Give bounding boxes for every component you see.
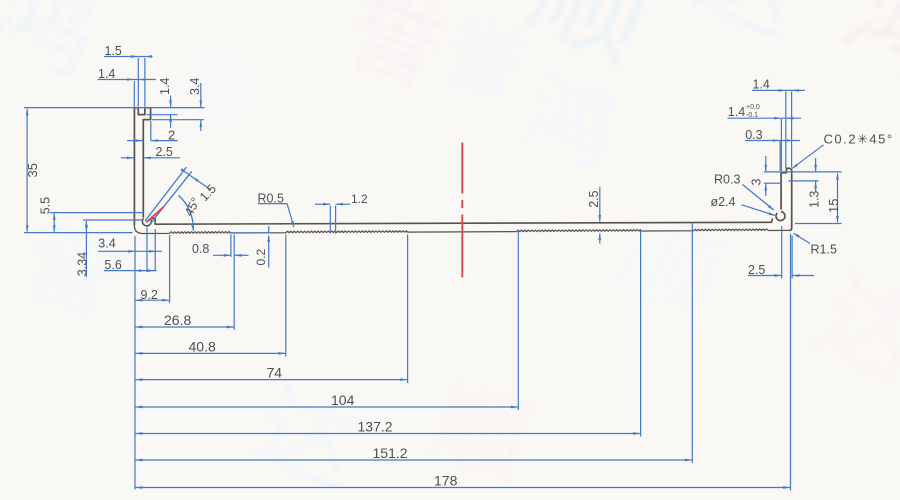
profile left corner screw boss circle [142, 218, 151, 226]
svg-text:178: 178 [434, 473, 458, 489]
dimension 40.8 [135, 352, 286, 354]
svg-text:R1.5: R1.5 [811, 242, 837, 256]
svg-text:40.8: 40.8 [189, 338, 216, 354]
profile bottom edge with serrated segments [134, 225, 789, 233]
profile left wall with top slot [134, 108, 150, 226]
dimension 2.5 bottom right [748, 275, 782, 277]
dimension 74 [135, 379, 408, 381]
dimension 2.5 wall thickness [121, 157, 134, 159]
svg-text:2.5: 2.5 [156, 145, 173, 159]
red rib highlight line [146, 207, 163, 222]
svg-text:0.2: 0.2 [254, 248, 268, 265]
dimension 5.5 [50, 212, 144, 214]
svg-text:达: 达 [680, 0, 815, 57]
profile right screw boss circle [776, 212, 785, 221]
svg-text:3.4: 3.4 [188, 78, 202, 95]
dimension 35 overall height [26, 109, 28, 232]
dimension 137.2 [135, 433, 641, 435]
45 degree angle arc [179, 195, 194, 230]
dimension 3.4 lip height vertical [200, 83, 202, 107]
svg-text:9.2: 9.2 [141, 288, 158, 302]
dimension 3.4 bottom [98, 250, 162, 252]
dimension 9.2 [135, 299, 170, 301]
svg-text:1.4: 1.4 [753, 78, 770, 92]
svg-text:74: 74 [267, 365, 283, 381]
svg-text:104: 104 [331, 392, 355, 408]
svg-text:3.4: 3.4 [98, 237, 115, 251]
dimension 178 [135, 487, 791, 489]
svg-text:15: 15 [826, 199, 841, 213]
dimension 104 [135, 406, 518, 408]
svg-text:137.2: 137.2 [358, 419, 393, 435]
red vertical centerline dash-dot [461, 143, 463, 194]
dimension 1.4 top right [752, 89, 805, 91]
svg-text:达: 达 [240, 368, 372, 500]
svg-text:151.2: 151.2 [373, 445, 408, 461]
extension line over wall top [24, 107, 205, 109]
dimension 0.2 serration depth [268, 226, 270, 233]
svg-text:1.4: 1.4 [728, 105, 745, 119]
dimension 0.3 [745, 140, 800, 142]
svg-text:1.4: 1.4 [158, 78, 172, 95]
45-degree rib extension line lower [149, 171, 191, 225]
svg-text:1.5: 1.5 [105, 44, 122, 58]
svg-text:C0.2✳45°: C0.2✳45° [824, 131, 894, 146]
dimension 151.2 [135, 459, 692, 461]
svg-text:5.6: 5.6 [104, 258, 121, 272]
svg-text:鸿: 鸿 [828, 0, 900, 106]
dimension 1.5 slot width [104, 56, 153, 58]
svg-text:3.34: 3.34 [75, 252, 89, 276]
svg-text:26.8: 26.8 [164, 312, 191, 328]
dimension 26.8 [135, 326, 234, 328]
svg-text:达: 达 [800, 257, 900, 401]
dimension 1.2 [315, 203, 330, 205]
dimension 3 right wall width [764, 171, 842, 173]
svg-text:2.5: 2.5 [587, 190, 601, 207]
left extension line for chain dimensions [134, 236, 136, 490]
dimension 15 [795, 223, 842, 225]
extension line bottom left [24, 232, 133, 234]
svg-text:ø2.4: ø2.4 [711, 195, 736, 209]
svg-text:1.4: 1.4 [98, 67, 115, 81]
svg-text:2.5: 2.5 [748, 263, 765, 277]
dimension 0.8 edge tail line [229, 232, 271, 234]
svg-text:顺: 顺 [600, 197, 737, 340]
svg-text:顺: 顺 [512, 0, 669, 86]
dimension 1.4 with tolerance [728, 117, 802, 119]
svg-text:+0.0: +0.0 [746, 104, 760, 111]
svg-text:35: 35 [25, 163, 40, 177]
svg-text:45°: 45° [182, 195, 203, 218]
dimension 2.5 base thickness [599, 187, 601, 222]
dimension 1.4 wall lip [98, 79, 157, 81]
dimension 5.6 [104, 270, 157, 272]
svg-text:-0.1: -0.1 [746, 112, 758, 119]
svg-text:券: 券 [161, 29, 280, 154]
svg-text:3: 3 [750, 179, 764, 186]
svg-text:鸿: 鸿 [0, 0, 116, 96]
svg-text:1.2: 1.2 [351, 192, 368, 206]
dimension 2 lip offset [127, 140, 143, 142]
dimension 3.34 [83, 219, 143, 221]
svg-text:5.5: 5.5 [38, 197, 52, 214]
svg-text:0.3: 0.3 [745, 128, 762, 142]
dimension 1.4 slot depth vertical [170, 96, 172, 108]
svg-text:1.3: 1.3 [808, 191, 822, 208]
dimension 1.5 rib width leader and arrows [182, 170, 211, 190]
dimension 0.8 [213, 254, 231, 256]
profile base top edge with left step [151, 218, 773, 224]
profile right wall [781, 168, 792, 230]
svg-text:R0.3: R0.3 [714, 172, 740, 186]
svg-text:0.8: 0.8 [192, 242, 209, 256]
svg-text:2: 2 [168, 128, 175, 143]
dimension 1.3 [789, 180, 819, 182]
45-degree rib extension line upper [145, 167, 186, 221]
